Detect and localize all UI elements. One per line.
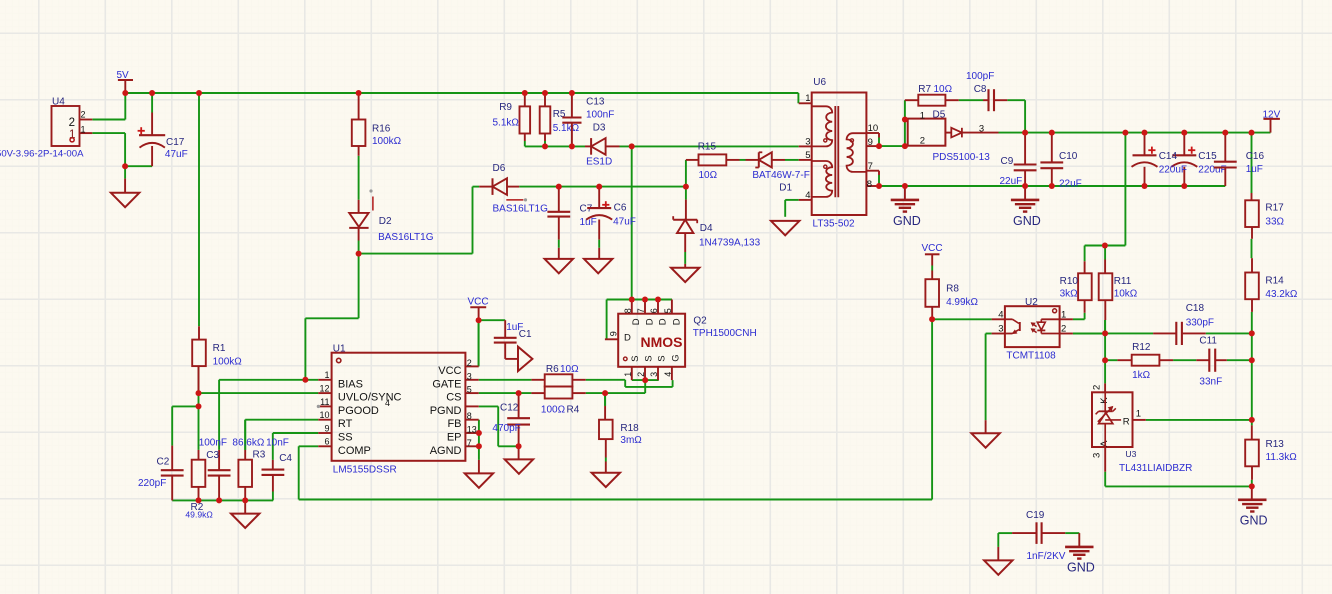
svg-text:U6: U6 (813, 77, 826, 88)
svg-text:3kΩ: 3kΩ (1060, 289, 1079, 300)
svg-text:R18: R18 (620, 423, 639, 434)
svg-text:PGND: PGND (430, 405, 462, 417)
svg-text:C6: C6 (614, 203, 627, 214)
svg-text:R14: R14 (1265, 275, 1284, 286)
svg-text:2: 2 (636, 372, 646, 377)
svg-text:S: S (630, 355, 641, 361)
svg-text:R10: R10 (1060, 276, 1079, 287)
svg-text:8: 8 (867, 179, 872, 190)
svg-text:ES1D: ES1D (586, 156, 612, 167)
svg-text:R16: R16 (372, 124, 391, 135)
svg-text:2: 2 (1061, 324, 1066, 335)
svg-text:EP: EP (447, 432, 462, 444)
svg-text:COMP: COMP (338, 445, 371, 457)
svg-text:86.6kΩ: 86.6kΩ (232, 438, 264, 449)
svg-text:RT: RT (338, 418, 353, 430)
svg-text:BAS16LT1G: BAS16LT1G (378, 232, 434, 243)
svg-text:4: 4 (998, 309, 1003, 320)
svg-text:10nF: 10nF (266, 438, 289, 449)
svg-text:4: 4 (805, 190, 810, 201)
svg-text:2: 2 (81, 109, 86, 119)
svg-text:AGND: AGND (430, 445, 462, 457)
svg-text:220pF: 220pF (138, 478, 166, 489)
svg-text:U4: U4 (52, 97, 65, 108)
svg-text:6: 6 (649, 308, 659, 313)
svg-text:LM5155DSSR: LM5155DSSR (333, 464, 397, 475)
svg-text:R6: R6 (546, 364, 559, 375)
svg-text:D2: D2 (379, 216, 392, 227)
svg-text:22uF: 22uF (1059, 178, 1082, 189)
svg-text:S: S (643, 355, 654, 361)
svg-text:1: 1 (920, 110, 925, 121)
svg-text:BIAS: BIAS (338, 378, 363, 390)
svg-text:50V-3.96-2P-14-00A: 50V-3.96-2P-14-00A (0, 148, 84, 159)
svg-text:4.99kΩ: 4.99kΩ (946, 297, 978, 308)
svg-text:1: 1 (1061, 309, 1066, 320)
svg-text:C9: C9 (1001, 156, 1014, 167)
svg-text:D3: D3 (593, 122, 606, 133)
svg-text:5: 5 (805, 150, 810, 161)
svg-text:3mΩ: 3mΩ (620, 435, 642, 446)
svg-text:G: G (670, 354, 681, 361)
svg-text:3: 3 (1092, 453, 1103, 458)
svg-text:4: 4 (663, 372, 673, 377)
svg-text:LT35-502: LT35-502 (813, 218, 856, 229)
svg-text:R7: R7 (918, 84, 931, 95)
svg-text:C16: C16 (1246, 151, 1265, 162)
svg-text:7: 7 (636, 308, 646, 313)
svg-text:2: 2 (69, 117, 75, 129)
svg-text:TCMT1108: TCMT1108 (1006, 351, 1056, 362)
svg-text:GND: GND (893, 214, 921, 228)
svg-text:11.3kΩ: 11.3kΩ (1266, 452, 1298, 463)
svg-text:5V: 5V (117, 70, 130, 81)
svg-text:VCC: VCC (438, 365, 461, 377)
svg-text:C17: C17 (166, 137, 185, 148)
svg-text:SS: SS (338, 432, 353, 444)
svg-text:1nF/2KV: 1nF/2KV (1027, 551, 1066, 562)
svg-text:3: 3 (979, 123, 984, 134)
svg-text:100nF: 100nF (586, 109, 614, 120)
svg-text:C10: C10 (1059, 151, 1078, 162)
svg-text:1: 1 (324, 370, 329, 380)
svg-text:R: R (1123, 417, 1130, 428)
svg-text:D: D (644, 318, 655, 325)
svg-text:13: 13 (467, 425, 477, 435)
svg-text:CS: CS (446, 392, 461, 404)
svg-text:D: D (657, 318, 668, 325)
svg-text:C12: C12 (500, 403, 519, 414)
svg-text:R11: R11 (1114, 276, 1132, 287)
svg-text:U1: U1 (333, 343, 346, 354)
svg-text:33nF: 33nF (1199, 376, 1222, 387)
svg-text:22uF: 22uF (1000, 176, 1023, 187)
svg-text:330pF: 330pF (1186, 317, 1214, 328)
svg-text:3: 3 (649, 372, 659, 377)
svg-text:R8: R8 (946, 283, 959, 294)
svg-text:1: 1 (805, 93, 810, 104)
svg-text:12V: 12V (1263, 109, 1281, 120)
svg-text:R4: R4 (567, 405, 580, 416)
svg-text:S: S (656, 355, 667, 361)
svg-text:R9: R9 (499, 102, 512, 113)
svg-text:100pF: 100pF (966, 71, 994, 82)
svg-text:2: 2 (920, 136, 925, 147)
svg-text:C4: C4 (279, 453, 292, 464)
svg-text:R3: R3 (253, 449, 266, 460)
svg-text:43.2kΩ: 43.2kΩ (1265, 289, 1297, 300)
svg-text:33Ω: 33Ω (1265, 216, 1284, 227)
svg-text:D1: D1 (779, 183, 792, 194)
svg-text:220uF: 220uF (1159, 164, 1187, 175)
svg-text:D: D (624, 332, 631, 343)
svg-text:3: 3 (998, 324, 1003, 335)
svg-text:UVLO/SYNC: UVLO/SYNC (338, 392, 402, 404)
svg-text:D: D (631, 318, 642, 325)
svg-text:47uF: 47uF (165, 149, 188, 160)
svg-text:100Ω: 100Ω (541, 405, 566, 416)
svg-text:U2: U2 (1025, 297, 1038, 308)
svg-text:C15: C15 (1198, 151, 1217, 162)
svg-text:BAT46W-7-F: BAT46W-7-F (752, 170, 809, 181)
svg-text:5: 5 (467, 385, 472, 395)
svg-text:4: 4 (385, 398, 390, 408)
svg-text:C13: C13 (586, 97, 605, 108)
svg-text:9: 9 (868, 137, 873, 148)
svg-text:C14: C14 (1159, 151, 1178, 162)
svg-text:D5: D5 (933, 109, 946, 120)
svg-text:C2: C2 (157, 456, 170, 467)
svg-text:11: 11 (320, 397, 329, 407)
svg-text:10: 10 (868, 123, 879, 134)
svg-text:1kΩ: 1kΩ (1132, 370, 1151, 381)
svg-text:1: 1 (623, 372, 633, 377)
svg-text:5.1kΩ: 5.1kΩ (553, 123, 580, 134)
svg-text:C19: C19 (1026, 510, 1045, 521)
svg-text:9: 9 (324, 423, 329, 433)
svg-text:D6: D6 (493, 163, 506, 174)
svg-text:12: 12 (319, 384, 329, 394)
svg-text:220uF: 220uF (1198, 164, 1226, 175)
svg-text:5.1kΩ: 5.1kΩ (493, 117, 520, 128)
svg-text:R13: R13 (1266, 439, 1285, 450)
svg-text:PDS5100-13: PDS5100-13 (933, 152, 991, 163)
svg-text:10Ω: 10Ω (934, 84, 953, 95)
svg-text:GND: GND (1240, 514, 1268, 528)
svg-text:1: 1 (1136, 408, 1141, 419)
svg-text:3: 3 (805, 136, 810, 147)
svg-text:FB: FB (447, 418, 461, 430)
svg-text:1N4739A,133: 1N4739A,133 (699, 238, 761, 249)
svg-text:GND: GND (1013, 214, 1041, 228)
svg-text:100nF: 100nF (199, 438, 227, 449)
svg-text:C18: C18 (1186, 303, 1205, 314)
svg-text:C1: C1 (519, 329, 532, 340)
svg-text:10: 10 (319, 410, 329, 420)
svg-text:R15: R15 (698, 141, 717, 152)
svg-text:100kΩ: 100kΩ (213, 356, 243, 367)
svg-text:5: 5 (663, 308, 673, 313)
svg-text:GND: GND (1067, 561, 1095, 575)
svg-text:C3: C3 (206, 450, 219, 461)
svg-text:PGOOD: PGOOD (338, 405, 379, 417)
svg-text:9: 9 (608, 331, 618, 336)
svg-text:D4: D4 (700, 223, 713, 234)
svg-text:470pF: 470pF (492, 423, 520, 434)
svg-text:8: 8 (623, 308, 633, 313)
svg-text:2: 2 (1092, 385, 1103, 390)
svg-text:VCC: VCC (468, 297, 489, 308)
svg-text:47uF: 47uF (613, 217, 636, 228)
svg-text:8: 8 (467, 411, 472, 421)
svg-text:TL431LIAIDBZR: TL431LIAIDBZR (1119, 463, 1192, 474)
svg-text:100kΩ: 100kΩ (372, 136, 402, 147)
svg-text:VCC: VCC (922, 243, 943, 254)
svg-text:6: 6 (324, 437, 329, 447)
svg-text:10Ω: 10Ω (699, 170, 718, 181)
svg-text:Q2: Q2 (693, 316, 707, 327)
svg-text:D: D (671, 318, 682, 325)
svg-text:NMOS: NMOS (641, 334, 683, 350)
svg-text:R17: R17 (1265, 203, 1284, 214)
svg-text:C11: C11 (1199, 336, 1217, 347)
svg-text:C8: C8 (974, 84, 987, 95)
svg-text:TPH1500CNH: TPH1500CNH (693, 328, 757, 339)
svg-text:GATE: GATE (432, 378, 461, 390)
svg-text:BAS16LT1G: BAS16LT1G (493, 203, 549, 214)
svg-text:1: 1 (81, 125, 86, 135)
svg-text:10kΩ: 10kΩ (1114, 289, 1138, 300)
svg-text:7: 7 (467, 438, 472, 448)
svg-text:3: 3 (467, 371, 472, 381)
svg-text:R1: R1 (213, 343, 226, 354)
svg-text:R12: R12 (1132, 342, 1151, 353)
svg-text:1uF: 1uF (1246, 164, 1263, 175)
svg-text:U3: U3 (1125, 449, 1136, 459)
svg-text:49.9kΩ: 49.9kΩ (185, 510, 213, 520)
svg-text:2: 2 (467, 358, 472, 368)
svg-text:7: 7 (868, 161, 873, 172)
svg-text:10Ω: 10Ω (560, 364, 579, 375)
